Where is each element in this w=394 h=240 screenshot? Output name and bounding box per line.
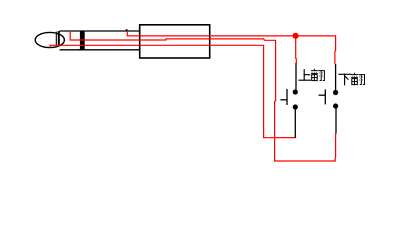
plug tip (ellipse) (35, 32, 64, 47)
label 上翻 : 上 (299, 70, 310, 81)
button2 top lead (black) (335, 64, 337, 90)
button2 lower contact dot (333, 103, 338, 108)
button1 lower lead (black) (294, 109, 296, 138)
label 下翻 : 下 (339, 74, 351, 85)
wire: tip wire (red) from tip to button1 bottom (50, 45, 296, 137)
plug barrel rectangle (140, 25, 210, 58)
button1 actuator bar (286, 89, 288, 105)
junction node (red dot) (293, 33, 299, 39)
plug body bottom line (60, 49, 140, 51)
wire: sleeve wire (red) from sleeve tap to buttons top (127, 31, 335, 64)
plug neck line 1 (55, 32, 57, 46)
label 上翻 : 翻 (312, 69, 325, 80)
button1 upper contact dot (293, 89, 298, 94)
plug body top line (60, 30, 140, 32)
plug neck line 2 (58, 31, 60, 46)
button1 lower contact dot (293, 104, 298, 109)
button2 actuator rod (319, 94, 326, 96)
button2 lower lead (black) (335, 108, 337, 134)
plug insulator band (80, 31, 85, 51)
wire: ring wire (red) from ring to button2 bottom (70, 31, 335, 161)
wire: red drop from junction to button1 top (295, 36, 298, 63)
button1 actuator rod (280, 99, 287, 101)
label 下翻 : 翻 (352, 73, 365, 84)
button2 upper contact dot (333, 90, 338, 95)
solder tick on sleeve (126, 29, 128, 31)
button2 actuator bar (324, 89, 326, 104)
button1 top lead (black) (295, 63, 297, 90)
